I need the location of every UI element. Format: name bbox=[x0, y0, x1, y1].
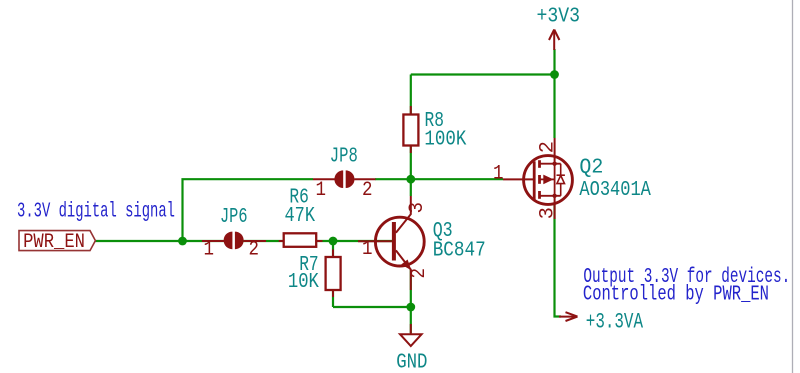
wire +3V3 rail horizontal to R8 top bbox=[411, 73, 555, 75]
svg-text:2: 2 bbox=[408, 268, 431, 279]
power +3.3VA bbox=[559, 309, 643, 335]
wire R6 to Q3 base bbox=[317, 240, 394, 242]
junction at PWR_EN riser bbox=[178, 237, 187, 246]
junction at +3V3 rail bbox=[550, 70, 559, 79]
wire JP6 pin2 side bbox=[243, 240, 283, 242]
svg-text:Controlled by PWR_EN: Controlled by PWR_EN bbox=[583, 283, 769, 306]
svg-text:3: 3 bbox=[406, 202, 429, 213]
wire R7 bottom to emitter node bbox=[333, 306, 411, 308]
wire R8 column vertical bbox=[410, 75, 412, 197]
svg-text:AO3401A: AO3401A bbox=[579, 179, 651, 202]
svg-text:JP6: JP6 bbox=[220, 206, 248, 229]
global label PWR_EN bbox=[19, 231, 95, 254]
svg-text:1: 1 bbox=[493, 163, 504, 186]
junction at emitter / GND node bbox=[406, 303, 415, 312]
wire JP8 to Q2 gate bbox=[375, 178, 503, 180]
svg-text:1: 1 bbox=[204, 238, 215, 261]
junction at R8 / JP8 / gate row bbox=[406, 175, 415, 184]
jumper JP6 bbox=[202, 232, 266, 250]
svg-text:47K: 47K bbox=[285, 205, 316, 228]
svg-text:GND: GND bbox=[396, 351, 427, 373]
wire PWR_EN to JP6/R6 bbox=[96, 240, 226, 242]
svg-text:100K: 100K bbox=[424, 129, 466, 152]
ground GND bbox=[396, 324, 427, 373]
power +3V3 bbox=[537, 5, 581, 50]
page border line bbox=[792, 0, 794, 373]
svg-text:JP8: JP8 bbox=[330, 146, 358, 169]
wire +3V3 stem down to Q2 drain column bbox=[553, 49, 555, 138]
resistor R8 bbox=[403, 106, 418, 153]
svg-text:3: 3 bbox=[537, 207, 560, 219]
svg-text:Q2: Q2 bbox=[579, 157, 603, 180]
svg-text:BC847: BC847 bbox=[433, 240, 486, 263]
svg-text:1: 1 bbox=[316, 179, 327, 202]
junction at R6 / R7 node bbox=[329, 237, 338, 246]
wire riser from PWR_EN node up and across to JP8 bbox=[183, 179, 314, 241]
svg-text:+3V3: +3V3 bbox=[537, 5, 581, 28]
wire R7 column vertical bbox=[332, 241, 334, 307]
jumper JP8 bbox=[313, 170, 376, 188]
svg-text:1: 1 bbox=[362, 238, 373, 261]
wire Q2 source down to +3.3VA corner bbox=[555, 203, 562, 317]
wire Q3 emitter down to GND bbox=[410, 270, 412, 333]
resistor R6 bbox=[279, 233, 323, 247]
svg-text:3.3V digital signal: 3.3V digital signal bbox=[17, 200, 175, 223]
transistor Q3 bbox=[358, 196, 424, 290]
svg-text:10K: 10K bbox=[288, 271, 319, 294]
svg-text:+3.3VA: +3.3VA bbox=[586, 309, 644, 335]
svg-text:2: 2 bbox=[362, 179, 373, 202]
transistor Q2 bbox=[503, 138, 572, 219]
svg-text:PWR_EN: PWR_EN bbox=[23, 231, 85, 254]
resistor R7 bbox=[326, 250, 341, 298]
svg-text:2: 2 bbox=[537, 141, 560, 153]
svg-text:2: 2 bbox=[249, 238, 260, 261]
